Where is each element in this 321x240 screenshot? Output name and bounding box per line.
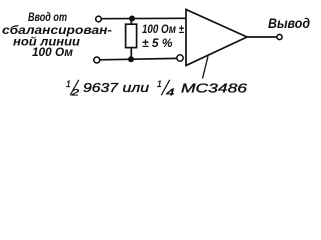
wire: bottom input to inverter bubble [100, 58, 177, 59]
wire: resistor bottom lead [130, 48, 132, 60]
svg-text:± 5 %: ± 5 % [142, 36, 173, 50]
terminal: output [277, 34, 282, 39]
terminal: input top [96, 16, 102, 22]
label: caption fraction 1/2 slash [70, 80, 79, 95]
terminal: input bottom [94, 57, 100, 63]
svg-text:2: 2 [70, 88, 80, 99]
wire: output [247, 36, 277, 38]
wire: resistor top lead [130, 19, 132, 25]
svg-text:Ввод от: Ввод от [28, 12, 67, 24]
svg-text:или: или [123, 80, 150, 95]
svg-text:1: 1 [66, 79, 71, 90]
svg-text:100 Ом ±: 100 Ом ± [142, 22, 184, 36]
svg-text:9637: 9637 [83, 80, 119, 95]
leader line to caption [203, 56, 209, 78]
svg-text:сбалансирован-: сбалансирован- [2, 25, 112, 37]
op-amp U1 line receiver triangle [186, 10, 247, 66]
svg-text:4: 4 [166, 87, 175, 99]
node: junction bottom [128, 56, 134, 62]
svg-text:100 Ом: 100 Ом [32, 47, 73, 59]
inversion bubble on lower input [177, 55, 183, 61]
wire: top input to triangle [102, 17, 186, 19]
resistor R1 100 Ом [126, 24, 137, 47]
svg-text:Вывод: Вывод [268, 15, 310, 31]
label: caption fraction 1/4 slash [161, 80, 170, 95]
svg-text:1: 1 [157, 79, 162, 90]
node: junction top [129, 16, 135, 22]
svg-text:МС3486: МС3486 [181, 80, 248, 95]
